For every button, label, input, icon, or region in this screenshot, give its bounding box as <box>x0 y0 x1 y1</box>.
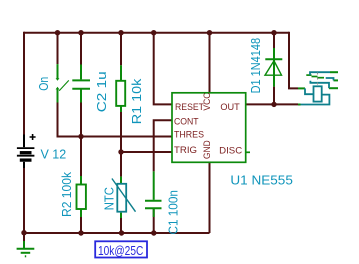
svg-text:On: On <box>37 77 51 91</box>
svg-text:NTC: NTC <box>102 187 116 210</box>
svg-text:GND: GND <box>202 140 212 159</box>
svg-text:D1 1N4148: D1 1N4148 <box>249 38 263 94</box>
svg-text:C1 100n: C1 100n <box>167 190 181 234</box>
svg-text:U1 NE555: U1 NE555 <box>230 174 293 188</box>
svg-text:DISC: DISC <box>219 146 243 156</box>
svg-text:OUT: OUT <box>220 102 240 112</box>
svg-text:V 12: V 12 <box>41 148 67 162</box>
svg-text:R2 100k: R2 100k <box>60 171 74 217</box>
svg-text:R1 10k: R1 10k <box>130 78 144 124</box>
svg-text:10k@25C: 10k@25C <box>98 243 143 258</box>
svg-text:THRES: THRES <box>174 130 204 140</box>
svg-text:TRIG: TRIG <box>174 145 197 155</box>
svg-text:VCC: VCC <box>202 92 212 110</box>
svg-text:RESET: RESET <box>175 102 204 112</box>
svg-text:CONT: CONT <box>174 117 199 127</box>
svg-text:C2 1u: C2 1u <box>95 71 109 112</box>
